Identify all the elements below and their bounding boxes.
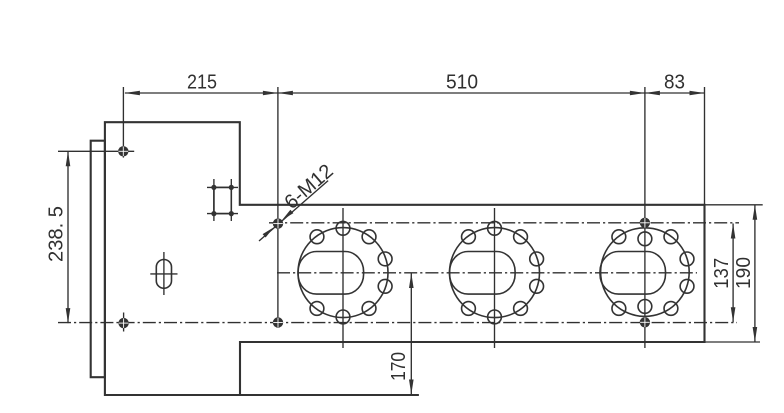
circle 2 hole top [488,221,502,235]
dimension line top [125,92,705,94]
dimension line 137 [732,224,734,323]
center line vertical circle 1 [342,208,344,348]
small rectangle feature cross lines [213,179,215,221]
circle 3 hole -126 [612,302,626,316]
extension line x=277.9 [277,87,279,326]
leader line 6-M12 [259,181,328,241]
M12 hole bottom x645 [640,317,650,327]
obround 2 [450,252,515,295]
extension line hole top-left horizontal [58,150,134,152]
bottom edge extension line [240,394,419,396]
center line vertical circle 3 + extension [644,87,646,348]
circle 1 hole top [336,221,350,235]
M12 hole top x278 [273,218,283,228]
slot center line horizontal [150,273,177,275]
circle 3 hole top inner [638,232,652,246]
dimension line 170 [410,273,412,395]
circle 1 hole 126 [310,230,324,244]
center line middle horizontal [277,272,697,274]
circle 3 hole 126 [612,230,626,244]
circle 2 hole -54 [514,302,528,316]
circle 3 hole 54 [664,230,678,244]
circle 3 hole 18 [680,252,694,266]
circle 1 hole -126 [310,302,324,316]
circle 1 hole 18 [378,252,392,266]
slot center line vertical [163,252,165,295]
obround 1 [298,252,364,295]
svg-text:137: 137 [711,258,733,289]
svg-text:238. 5: 238. 5 [46,206,68,262]
circle 3 hole bottom inner [638,300,652,314]
circle 1 hole 54 [362,230,376,244]
M12 hole bottom x278 [273,317,283,327]
small rectangle feature [214,187,231,213]
svg-text:190: 190 [733,257,755,289]
M12 hole top x645 [640,218,650,228]
circle 2 hole bottom [488,310,502,324]
bottom right edge extension line [705,341,761,343]
center line top bolt row [269,222,739,224]
circle 1 hole -18 [378,279,392,293]
dimension line left 238.5 [67,151,69,323]
circle 3 hole -54 [664,302,678,316]
obround 3 [600,252,666,295]
M12 hole bottom-left [118,318,128,328]
center line bottom bolt row [58,322,737,324]
circle 2 hole 18 [530,252,544,266]
dimension 510 arrows [278,91,293,96]
circle 1 hole -54 [362,302,376,316]
circle 2 hole 126 [462,230,476,244]
circle 2 hole 54 [514,230,528,244]
plate outline [105,122,705,395]
circle 2 hole -126 [462,302,476,316]
left tab flange [91,141,105,378]
svg-text:510: 510 [446,72,478,94]
dimension line 190 [754,205,756,342]
bolt circle 2 [450,228,540,318]
extension line x=123.4 [122,87,124,158]
svg-text:83: 83 [664,72,685,94]
M12 hole top-left [118,146,128,156]
extension line x=704.5 [704,87,706,205]
circle 2 hole -18 [530,279,544,293]
dimension 83 arrows [645,91,660,96]
tick vertical hole bottom-left [123,313,125,332]
svg-text:170: 170 [388,352,410,381]
circle 1 hole bottom [336,310,350,324]
slot hole left [156,260,171,289]
svg-text:215: 215 [187,72,217,94]
bolt circle 1 [298,228,388,318]
top edge extension line (right) [705,204,763,206]
bolt circle 3 [601,228,690,317]
center line vertical circle 2 [494,208,496,348]
circle 3 hole -18 [680,279,694,293]
dimension 215 arrows [125,91,140,96]
small rectangle corner dots [211,185,216,190]
